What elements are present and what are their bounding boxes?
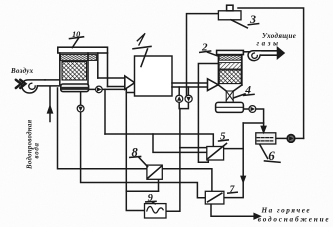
burner unit 3 — [218, 11, 241, 20]
svg-text:4: 4 — [244, 85, 251, 97]
pump b — [77, 105, 84, 112]
vessel 2 packing crosshatch — [219, 70, 241, 84]
leader 1 — [141, 49, 148, 67]
leader 9 — [152, 202, 155, 204]
wire: water line from tray of 10 through pump c — [89, 88, 127, 90]
tank under valve 4 — [216, 102, 244, 112]
leader 2 — [208, 52, 218, 56]
wire: box 5 right over to drop x243.2 — [224, 148, 244, 150]
vessel 2 body walls — [217, 55, 219, 85]
air inlet arrow — [16, 80, 26, 88]
leader 8 — [138, 157, 147, 167]
wire: U join below pumps a1 a2 — [179, 102, 188, 108]
svg-text:водоснабжение: водоснабжение — [258, 215, 331, 223]
svg-text:газы: газы — [257, 39, 281, 47]
exhaust scroll — [243, 51, 250, 53]
underline 6 — [265, 161, 281, 162]
underline 2 — [200, 51, 211, 52]
wire: vertical x105 down to long header — [104, 89, 106, 134]
exhaust arrow — [262, 50, 278, 52]
svg-text:Воздух: Воздух — [10, 67, 34, 75]
wire: tap-water riser x57.5 turning right at y168.8 — [58, 88, 147, 169]
arrow up on tap stub — [48, 106, 53, 113]
svg-text:Водопроводная: Водопроводная — [27, 119, 34, 170]
scrubber 10 tray — [61, 84, 89, 92]
underline 5 — [219, 140, 229, 141]
svg-text:5: 5 — [220, 131, 226, 143]
underline 8 — [130, 156, 141, 159]
vessel 2 lid — [217, 50, 244, 54]
wire: link y191.2 — [126, 190, 158, 192]
wire: box 7 bottom out to hot water supply arrow — [211, 204, 256, 216]
duct heater 1 to vessel 2 — [172, 82, 208, 84]
wire: branch y147.6 to box 5 left — [180, 147, 207, 149]
svg-text:8: 8 — [132, 145, 139, 159]
duct arrow into vessel 2 — [208, 79, 219, 91]
svg-text:6: 6 — [268, 148, 275, 163]
svg-text:10: 10 — [72, 30, 80, 39]
wire: same header right of box 8 down into box 7 top — [162, 169, 212, 192]
wire: tank 4 outlet to pump d — [243, 108, 249, 110]
scrubber 10 packing crosshatch — [62, 62, 87, 81]
wire: long horizontal header y135.3 then down to box 5 top — [105, 134, 213, 147]
underline 7 — [228, 191, 237, 194]
wire: stubs from duct down to pumps a1 a2 — [178, 87, 180, 96]
wire: long vertical x179.9 down then left to box 9 right — [166, 109, 180, 212]
heater 9 — [145, 204, 167, 218]
svg-text:вода: вода — [34, 142, 41, 158]
svg-text:2: 2 — [201, 42, 208, 54]
wire: hot pipe from unit 3 left then down to pumps — [187, 14, 219, 96]
hot water supply arrow head — [254, 214, 260, 219]
pump e — [287, 135, 295, 143]
leader 4 — [234, 94, 245, 98]
wire: drop x243.2 down then left into box 7 right — [224, 123, 243, 198]
vessel 2 hatch band mid — [219, 63, 241, 69]
pump c — [96, 86, 103, 93]
svg-text:3: 3 — [249, 12, 256, 26]
underline 4 — [244, 94, 254, 95]
duct fan to scrubber 10 — [45, 79, 60, 81]
heat exchanger 7 — [205, 191, 224, 204]
duct into heater 1 — [98, 77, 125, 79]
wire: top of drop over to tank 6 feed — [243, 123, 263, 130]
wire: hot pipe from unit 3 right along top then down right edge — [238, 8, 304, 138]
leader 3 — [231, 20, 247, 28]
scrubber 10 lid and top duct — [58, 47, 108, 53]
vessel 2 hatch band top — [219, 55, 241, 60]
heat exchanger 8 — [147, 165, 162, 179]
svg-text:На горячее: На горячее — [261, 206, 312, 214]
vertical duct from lid down — [97, 53, 99, 78]
arrow down into tank 6 — [261, 126, 265, 132]
fan scroll left — [22, 80, 45, 93]
duct arrow into heater 1 — [125, 76, 135, 89]
underline 10 — [70, 37, 84, 39]
wire: stub from box 8 bottom — [158, 179, 160, 191]
wire: drain from tray centre to pump b — [80, 92, 82, 106]
wire: below pump b down then right along y183.5 into box 7 left — [81, 112, 206, 198]
leader 6 — [260, 145, 268, 159]
pump a1 — [176, 95, 183, 102]
underline 1 — [133, 46, 151, 48]
wire: tap-water stub with up arrow — [49, 87, 51, 122]
wire: vertical x126.3 down to box 9 left — [126, 89, 144, 210]
tank 6 — [256, 133, 276, 144]
heat exchanger 5 — [207, 147, 224, 161]
wire: box 1 bottom link to drop x126.3 — [126, 92, 134, 94]
underline 9 — [146, 200, 156, 203]
heater box 1 — [135, 56, 173, 96]
svg-text:9: 9 — [148, 193, 154, 204]
wire: tank 6 to pump e — [276, 137, 287, 139]
arrow down on drop x243.2 — [241, 176, 245, 181]
underline 3 — [248, 24, 258, 25]
valve 4 — [226, 91, 233, 102]
wire: pump e to right riser — [295, 137, 304, 139]
vessel 2 funnel — [218, 85, 226, 91]
label 1 — [137, 34, 144, 45]
scrubber 10 body walls — [59, 53, 61, 85]
wire: branch x153 down to box 5 left — [153, 134, 207, 152]
pump d — [249, 106, 256, 113]
wire: riser x198.4 up to sprayer of vessel 2 — [198, 64, 218, 163]
scrubber 10 hatch band — [61, 55, 97, 61]
wire: pump d outlet right then down — [256, 109, 264, 123]
leader 10 — [72, 38, 78, 47]
pump a2 — [185, 95, 192, 102]
